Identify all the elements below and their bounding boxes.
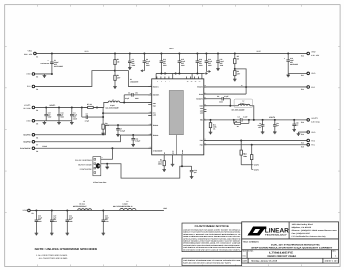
label L1 value xyxy=(110,104,115,107)
wire FB2 wire left xyxy=(204,119,241,121)
node junction xyxy=(66,209,68,211)
wire R4 left drop xyxy=(233,120,235,124)
capacitor C9 1uF xyxy=(128,53,132,65)
svg-text:GND: GND xyxy=(200,110,203,112)
wire R4 leads xyxy=(234,122,249,124)
svg-text:+: + xyxy=(48,59,49,62)
proprietary strip xyxy=(182,258,242,266)
wire VIN pin stub b xyxy=(172,73,174,78)
label L2 value xyxy=(240,102,245,105)
wire RT stub xyxy=(163,155,165,159)
resistor R3 14.7k xyxy=(163,158,165,168)
svg-text:TECHNOLOGY: TECHNOLOGY xyxy=(265,233,288,236)
resistor R11 215k xyxy=(209,120,211,131)
ground C22 ground xyxy=(50,231,54,235)
label VIN1 range xyxy=(24,53,33,56)
wire boost drop xyxy=(123,95,125,103)
ground arrow strip c xyxy=(203,72,205,74)
wire TR/SS1 route xyxy=(35,125,152,135)
node junction xyxy=(262,119,264,121)
node junction xyxy=(129,52,131,54)
svg-text:VOUT2: VOUT2 xyxy=(311,117,317,120)
capacitor C27 1uF xyxy=(273,120,277,130)
svg-text:GND: GND xyxy=(172,151,174,154)
label C13 value xyxy=(194,169,197,174)
terminal E5 (GND) xyxy=(32,120,35,123)
label C26 value xyxy=(296,122,299,127)
L2 outline box xyxy=(234,99,253,107)
capacitor C6 4.7uF xyxy=(82,115,103,119)
node junction xyxy=(81,106,83,108)
label C1 part note xyxy=(41,62,50,65)
part number row xyxy=(243,250,337,259)
customer notice box xyxy=(182,223,242,252)
svg-text:VIN2: VIN2 xyxy=(163,207,167,210)
terminal E15 (PG1) xyxy=(307,144,310,147)
capacitor C10 0.1uF xyxy=(205,53,209,71)
svg-text:PG2: PG2 xyxy=(311,139,315,142)
svg-text:EN2: EN2 xyxy=(311,86,315,89)
label SS1TR1 xyxy=(23,134,30,137)
label R5 value xyxy=(237,55,240,60)
svg-text:18: 18 xyxy=(187,81,189,83)
svg-text:1. ALL RESISTORS ARE IN 0603.: 1. ALL RESISTORS ARE IN 0603. xyxy=(36,254,68,257)
node EN2 node xyxy=(234,68,236,70)
svg-text:DUAL 42V SYNCHRONOUS MONOLITHI: DUAL 42V SYNCHRONOUS MONOLITHIC xyxy=(271,244,320,247)
node SW node tap xyxy=(123,101,125,103)
capacitor C18 22uF xyxy=(286,53,290,73)
ground C26 ground xyxy=(292,128,296,132)
wire VIN pin stub a xyxy=(155,73,157,78)
terminal E8 (SYNC/MODE) xyxy=(32,147,35,150)
capacitor C11 2.2uF xyxy=(216,53,220,66)
svg-text:LTC Confidential-For Customer: LTC Confidential-For Customer Use Only xyxy=(292,235,326,238)
inductor L1 3.3uH xyxy=(108,101,120,102)
svg-text:XAL4030-332ME: XAL4030-332ME xyxy=(105,106,119,109)
label C34 value xyxy=(135,138,140,143)
label R8 value xyxy=(243,153,246,158)
svg-text:22: 22 xyxy=(195,81,197,83)
label R9 value xyxy=(105,122,109,127)
svg-text:Fax: (408)434-0507: Fax: (408)434-0507 xyxy=(292,232,311,235)
IC pin numbers sides xyxy=(150,85,206,149)
node C7 node xyxy=(117,124,119,126)
label R4 name xyxy=(235,120,237,123)
label EN2 label xyxy=(311,86,315,89)
label R10 value xyxy=(244,154,247,158)
label VOUT2 rating xyxy=(311,120,320,123)
label R11 value xyxy=(213,124,217,131)
node C6 node xyxy=(102,116,104,118)
svg-text:VOUT2: VOUT2 xyxy=(269,116,275,119)
capacitor C14 1uF xyxy=(57,107,61,120)
wire R10 net stub xyxy=(252,168,253,170)
label C9 value xyxy=(132,58,136,67)
node junction xyxy=(233,119,235,121)
svg-text:20: 20 xyxy=(191,81,193,83)
label C18 value xyxy=(290,57,298,66)
node PG1 tap xyxy=(251,144,253,146)
svg-text:GND: GND xyxy=(311,72,316,75)
label R4 value xyxy=(237,125,240,128)
ground arrow strip b xyxy=(176,72,178,74)
address block xyxy=(292,223,338,238)
ground C18 ground xyxy=(286,73,290,77)
wire MODE stub xyxy=(181,155,183,166)
svg-text:PULSE SKIPPING: PULSE SKIPPING xyxy=(75,159,92,162)
svg-text:24: 24 xyxy=(199,81,201,83)
wire E2 to C1 xyxy=(35,73,52,75)
svg-text:4 Pins 2mm Ctrs.: 4 Pins 2mm Ctrs. xyxy=(93,181,107,184)
ground R6 ground xyxy=(233,77,237,81)
capacitor C26 1uF xyxy=(292,120,296,128)
label EN1 xyxy=(27,85,31,88)
svg-text:EN1: EN1 xyxy=(27,85,31,88)
wire L2 out xyxy=(250,106,254,120)
label C12 value xyxy=(163,58,167,67)
node junction xyxy=(51,52,53,54)
node junction xyxy=(287,52,289,54)
svg-text:R10: R10 xyxy=(244,154,247,156)
wire rail cont xyxy=(97,106,104,108)
svg-text:PG1: PG1 xyxy=(311,144,315,147)
label C4ff name xyxy=(238,116,240,119)
svg-text:BURST MODE: BURST MODE xyxy=(78,164,92,167)
svg-text:LINEAR: LINEAR xyxy=(265,227,289,234)
node junction xyxy=(248,119,250,121)
wire EMI rail xyxy=(30,209,164,211)
capacitor C1 100uF xyxy=(50,53,54,73)
ground RT ground xyxy=(162,168,166,172)
svg-text:IHLP1212ABERR22M-11: IHLP1212ABERR22M-11 xyxy=(113,205,133,208)
node junction xyxy=(51,209,53,211)
resistor R5 1M xyxy=(234,53,236,68)
svg-text:1630 McCarthy Blvd.: 1630 McCarthy Blvd. xyxy=(292,223,314,226)
wire SYNC wire xyxy=(35,147,152,149)
node junction xyxy=(35,209,37,211)
wire JP1 pin1 wire xyxy=(101,148,113,159)
terminal E7 (SS2/TR2) xyxy=(32,141,35,144)
svg-text:SYNC: SYNC xyxy=(42,145,47,148)
label L3 value xyxy=(79,202,85,205)
label C10 value xyxy=(208,58,212,67)
ground C27 ground xyxy=(273,130,277,134)
label L4 part xyxy=(113,205,133,208)
label C23 value xyxy=(69,214,73,223)
label C15 value xyxy=(181,58,185,67)
node C34 node xyxy=(132,134,134,136)
ground C13 ground xyxy=(190,175,194,179)
svg-text:SS2/TR2: SS2/TR2 xyxy=(23,141,30,144)
node junction xyxy=(102,209,104,211)
wire to L1 xyxy=(104,102,108,107)
svg-text:GND: GND xyxy=(200,108,203,110)
title block frame xyxy=(242,222,339,263)
label GND E11 xyxy=(311,72,316,75)
terminal E2 (GND) xyxy=(32,73,35,76)
wire R4 up xyxy=(248,120,250,124)
label R2 value xyxy=(117,74,120,79)
wire L1 to SW1 xyxy=(120,101,152,103)
ground C34 ground xyxy=(131,143,135,147)
label C2 value xyxy=(125,97,129,100)
ground gnd a xyxy=(43,121,47,125)
wire PG1 wire xyxy=(204,144,307,146)
svg-text:STEP-DOWN REGULATOR WITH 6.5µA: STEP-DOWN REGULATOR WITH 6.5µA QUIESCENT… xyxy=(251,247,333,250)
IC pin numbers xyxy=(148,76,206,148)
label C2 alt xyxy=(135,91,139,94)
label C24 value xyxy=(105,214,109,223)
inductor L3 ferrite xyxy=(78,209,92,211)
label C20 value xyxy=(38,214,42,223)
svg-text:VOUT1: VOUT1 xyxy=(24,104,30,107)
svg-text:XFL4005-222ME: XFL4005-222ME xyxy=(231,108,245,111)
svg-text:GND: GND xyxy=(26,120,31,123)
label VOUT2 lbl xyxy=(311,117,317,120)
wire R8 net stub xyxy=(241,164,253,166)
wire EN1 route xyxy=(35,71,115,87)
label SYNCMODE xyxy=(20,147,31,150)
svg-text:5.8V - 42V: 5.8V - 42V xyxy=(24,53,33,56)
node junction xyxy=(96,106,98,108)
title text xyxy=(243,241,333,250)
node junction xyxy=(45,106,47,108)
label VIN1 input xyxy=(28,50,33,53)
ground R2 ground xyxy=(113,85,117,89)
capacitor C4 22uF xyxy=(70,107,74,120)
svg-text:IC NO.: IC NO. xyxy=(248,250,254,253)
label C22 value xyxy=(53,214,57,223)
svg-text:3.3V / 2.5A: 3.3V / 2.5A xyxy=(311,120,320,123)
node junction xyxy=(253,119,255,121)
label R6 value xyxy=(237,70,240,75)
node junction xyxy=(58,106,60,108)
svg-text:TITLE: SCHEMATIC: TITLE: SCHEMATIC xyxy=(243,241,260,244)
label VIN2 out xyxy=(311,51,315,54)
ground C24 ground xyxy=(102,231,106,235)
capacitor C20 0.1uF xyxy=(35,210,39,231)
node junction xyxy=(71,106,73,108)
svg-text:NOTE: UNLESS OTHERWISE SPECIFI: NOTE: UNLESS OTHERWISE SPECIFIED xyxy=(35,248,98,251)
resistor R8 1M xyxy=(240,140,242,164)
wire PG2 wire xyxy=(204,139,307,141)
label C27 value xyxy=(276,122,279,127)
label C16 value xyxy=(199,58,203,67)
label C4ff value xyxy=(243,116,247,119)
label L3 name xyxy=(83,200,85,203)
label L1 name xyxy=(112,98,114,101)
capacitor C23 4.7uF xyxy=(66,210,70,231)
terminal E11 (GND) xyxy=(307,72,310,75)
label PG2 lbl xyxy=(311,139,315,142)
ground R11 ground xyxy=(209,130,213,134)
svg-text:VOUT1: VOUT1 xyxy=(49,104,55,107)
node junction xyxy=(274,119,276,121)
label GND E5 xyxy=(26,120,31,123)
terminal E3 (EN1) xyxy=(32,85,35,88)
svg-text:VIN2: VIN2 xyxy=(311,51,315,54)
label C2 size xyxy=(135,97,139,100)
date row xyxy=(243,260,339,263)
capacitor C7 0.01uF xyxy=(116,125,120,133)
label C14 value xyxy=(61,112,65,119)
wire EN1 to pin xyxy=(115,71,152,87)
svg-text:MPZ2012S300AT: MPZ2012S300AT xyxy=(73,205,88,208)
terminal E10 (VIN2) xyxy=(307,52,310,55)
ground JP1 xyxy=(105,164,109,169)
wire FB1 vertical xyxy=(102,107,104,121)
label C3 name xyxy=(217,95,220,98)
capacitor C5 22uF xyxy=(261,120,265,130)
ground arrow C10 xyxy=(206,70,208,72)
svg-text:Phone: (408)432-1900 www.line: Phone: (408)432-1900 www.linear.com xyxy=(292,229,338,232)
IC right pin names xyxy=(196,86,203,147)
svg-text:VEMI: VEMI xyxy=(22,209,27,212)
node junction xyxy=(160,72,162,74)
label U1 refdes xyxy=(130,78,138,83)
label GND E16 xyxy=(311,131,316,134)
wire ground strip xyxy=(156,72,204,74)
svg-text:19: 19 xyxy=(204,85,206,87)
wire VIN pin stub d xyxy=(201,73,203,78)
capacitor C3 0.1uF boost2 xyxy=(204,97,231,101)
node junction xyxy=(293,119,295,121)
label C2 name xyxy=(128,91,131,94)
wire EN2 vertical xyxy=(235,69,246,94)
resistor R1 1M xyxy=(114,53,116,70)
label L4 value xyxy=(122,202,128,205)
capacitor C22 1uF xyxy=(50,210,54,231)
capacitor C24 22uF xyxy=(102,210,106,231)
node junction xyxy=(196,72,198,74)
label C17 value xyxy=(48,112,52,119)
label VOUT1 lbl xyxy=(24,104,30,107)
capacitor C16 1uF xyxy=(196,53,200,73)
terminal E6 (SS1/TR1) xyxy=(32,134,35,137)
ground arrow C8 xyxy=(140,69,144,72)
node junction xyxy=(196,52,198,54)
IC pin numbers top xyxy=(157,81,200,83)
resistor R6 OPT xyxy=(234,69,236,78)
ground C9 ground xyxy=(128,66,132,70)
svg-text:RT: RT xyxy=(164,152,166,154)
ground R9 ground xyxy=(101,131,105,135)
resistor R10 1M xyxy=(251,145,253,170)
wire boost2 drop xyxy=(229,99,231,106)
terminal E1 (VIN1) xyxy=(34,52,37,55)
label L1 part xyxy=(105,106,119,109)
logo Linear Technology xyxy=(248,227,290,237)
wire VOUT2 rail right xyxy=(242,119,307,121)
IC left pin names xyxy=(153,85,163,152)
node FB1 node xyxy=(102,112,104,114)
wire VIN pin stub c xyxy=(191,73,193,78)
label GND E2 xyxy=(26,73,31,76)
svg-text:LT8616EFE: LT8616EFE xyxy=(269,251,294,254)
svg-text:SS1/TR1: SS1/TR1 xyxy=(23,134,30,137)
label VEMI lbl xyxy=(22,209,27,212)
node junction xyxy=(217,52,219,54)
terminal E9 (VEMI) xyxy=(28,209,31,212)
label SS2TR2 xyxy=(23,141,30,144)
svg-text:GND: GND xyxy=(311,131,316,134)
svg-text:SYNC: SYNC xyxy=(182,150,184,154)
node junction xyxy=(234,52,236,54)
wire VIN rail xyxy=(35,52,307,54)
terminal E12 (EN2) xyxy=(307,86,310,89)
svg-text:VIN1: VIN1 xyxy=(84,50,88,53)
label PG1 lbl xyxy=(311,144,315,147)
wire FB1 drop xyxy=(81,107,83,117)
connector JP1 mode select xyxy=(93,157,101,176)
node SYNC junction xyxy=(111,147,113,149)
label VOUT1 rating xyxy=(23,107,31,110)
label C4 value xyxy=(73,112,77,121)
node junction xyxy=(205,52,207,54)
ground arrow strip a xyxy=(162,72,164,74)
node C1 gnd node xyxy=(51,73,53,75)
ground E16 ground xyxy=(297,132,301,136)
label C5 value xyxy=(258,122,263,129)
ground input ground xyxy=(43,74,47,78)
ground gnd c xyxy=(70,121,74,125)
capacitor C12 1uF xyxy=(160,53,164,73)
svg-text:+: + xyxy=(284,57,285,60)
svg-text:4.1V - 42V: 4.1V - 42V xyxy=(311,54,320,57)
svg-text:4: 4 xyxy=(335,254,336,257)
terminal E4 (VOUT1) xyxy=(32,106,35,109)
wire VOUT1 rail xyxy=(35,106,104,108)
wire E5 gnd wire xyxy=(35,120,72,122)
label C11 value xyxy=(220,58,224,67)
capacitor C13 1uF xyxy=(190,166,194,175)
svg-text:Monday, January 19, 2015: Monday, January 19, 2015 xyxy=(251,260,277,263)
capacitor C2 0.1uF boost xyxy=(124,93,151,97)
ground C23 ground xyxy=(66,231,70,235)
node junction xyxy=(210,119,212,121)
svg-text:37: 37 xyxy=(204,92,206,94)
label L2 name xyxy=(242,100,244,103)
svg-text:5V / 1.5A: 5V / 1.5A xyxy=(23,107,31,110)
node EN1 node xyxy=(114,70,116,72)
capacitor C15 0.1uF xyxy=(178,53,182,73)
capacitor C4 feedforward xyxy=(240,118,242,122)
label C3 size xyxy=(219,100,223,103)
node junction xyxy=(143,52,145,54)
wire E16 gnd wire xyxy=(298,131,306,133)
node JP1 gnd node xyxy=(106,163,108,165)
label R3 value xyxy=(158,159,162,166)
node junction xyxy=(160,52,162,54)
node loop node xyxy=(181,165,183,167)
label L2 part xyxy=(231,108,245,111)
capacitor C17 1uF xyxy=(44,107,48,120)
node boost2 node xyxy=(229,105,231,107)
wire TR/SS2 route xyxy=(35,135,152,142)
node junction xyxy=(178,52,180,54)
wire JP1 to IC loop xyxy=(101,164,192,178)
node junction xyxy=(178,72,180,74)
inductor L2 2.2uH xyxy=(238,104,250,105)
svg-text:DEMO CIRCUIT 2168A: DEMO CIRCUIT 2168A xyxy=(268,255,297,258)
svg-text:GND: GND xyxy=(200,113,203,115)
label C8 value xyxy=(146,58,150,67)
label JP1 positions xyxy=(75,159,92,171)
label R7 value xyxy=(87,103,92,106)
terminal E14 (PG2) xyxy=(307,139,310,142)
node junction xyxy=(114,52,116,54)
resistor R9 165k xyxy=(102,122,104,132)
